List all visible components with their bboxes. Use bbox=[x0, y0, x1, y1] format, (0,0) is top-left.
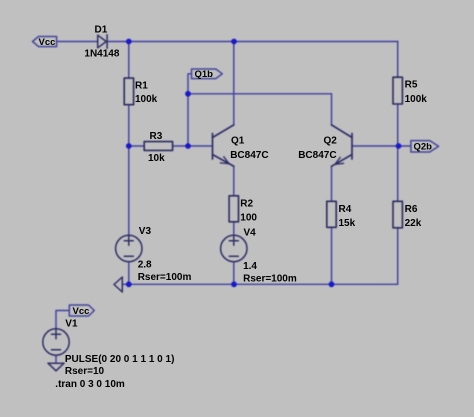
wire V1 flag link bbox=[56, 311, 69, 329]
svg-text:PULSE(0 20 0 1 1 1 0 1): PULSE(0 20 0 1 1 1 0 1) bbox=[65, 354, 175, 365]
resistor R5 bbox=[393, 77, 402, 104]
node dot rail V3 bbox=[126, 281, 132, 287]
svg-text:R2: R2 bbox=[240, 198, 253, 209]
wire R6 bottom drop bbox=[397, 228, 399, 284]
svg-text:Rser=100m: Rser=100m bbox=[138, 272, 192, 283]
ground under V1 bbox=[48, 363, 64, 371]
wire bottom ground rail bbox=[122, 283, 397, 285]
svg-text:Vcc: Vcc bbox=[39, 37, 56, 48]
svg-text:Q2: Q2 bbox=[324, 136, 338, 147]
svg-text:Rser=10: Rser=10 bbox=[65, 366, 105, 377]
ground left (rotated) bbox=[114, 277, 122, 292]
wire cross node to Q1b flag bbox=[188, 74, 192, 94]
wire R1 bottom to node bbox=[128, 105, 130, 146]
svg-text:R5: R5 bbox=[405, 80, 418, 91]
wire cross coupling horizontal bbox=[188, 93, 332, 95]
node dot Q1b cross bbox=[185, 91, 191, 97]
flag Vcc top bbox=[33, 37, 57, 47]
wire R4 bottom to rail bbox=[331, 227, 333, 284]
flag Q2b bbox=[411, 141, 439, 152]
svg-text:V4: V4 bbox=[244, 228, 257, 239]
svg-text:R1: R1 bbox=[135, 81, 148, 92]
wire Q1 emitter down to R2 bbox=[233, 166, 235, 196]
svg-text:D1: D1 bbox=[95, 25, 108, 36]
svg-text:Q2b: Q2b bbox=[414, 142, 433, 153]
wire V1 bottom to ground bbox=[55, 355, 57, 363]
resistor R2 bbox=[229, 196, 238, 222]
wire base node up to cross node bbox=[187, 94, 189, 146]
svg-text:BC847C: BC847C bbox=[230, 150, 268, 161]
wire R2 bottom to V4 bbox=[233, 222, 235, 236]
svg-text:100k: 100k bbox=[405, 94, 428, 105]
wire V4 bottom to rail bbox=[233, 262, 235, 285]
svg-text:15k: 15k bbox=[339, 218, 356, 229]
voltage source V3 bbox=[116, 235, 142, 261]
node dot rail R4 bbox=[329, 281, 335, 287]
svg-text:Q1b: Q1b bbox=[195, 69, 214, 80]
flag Vcc bottom bbox=[69, 305, 94, 316]
diode D1 bbox=[98, 35, 107, 49]
svg-text:22k: 22k bbox=[405, 218, 422, 229]
flag Q1b bbox=[192, 69, 223, 79]
svg-text:R3: R3 bbox=[150, 131, 163, 142]
svg-text:Vcc: Vcc bbox=[73, 306, 90, 317]
svg-text:2.8: 2.8 bbox=[138, 260, 152, 271]
svg-text:Q1: Q1 bbox=[231, 136, 245, 147]
transistor Q1 bbox=[213, 125, 234, 166]
svg-text:100: 100 bbox=[240, 212, 257, 223]
wire Q2 base bbox=[352, 145, 399, 147]
svg-text:10k: 10k bbox=[148, 153, 165, 164]
wire Q1 collector up to rail bbox=[233, 42, 235, 125]
wire Q2 emitter down to R4 bbox=[331, 166, 333, 201]
wire Q1 base bbox=[188, 145, 213, 147]
svg-text:R6: R6 bbox=[405, 204, 418, 215]
svg-text:V1: V1 bbox=[65, 319, 78, 330]
resistor R1 bbox=[124, 78, 133, 105]
resistor R3 bbox=[144, 142, 172, 151]
wire R5 top drop bbox=[397, 42, 399, 78]
svg-text:V3: V3 bbox=[139, 226, 152, 237]
resistor R6 bbox=[393, 201, 402, 228]
wire top rail right (D1 cathode to R5 corner) bbox=[107, 41, 398, 43]
wire down to Q2 collector bbox=[331, 94, 333, 125]
wire R5 bottom to Q2b node bbox=[397, 104, 399, 146]
wire V3 bottom to rail bbox=[128, 262, 130, 285]
svg-text:100k: 100k bbox=[135, 94, 158, 105]
svg-text:Rser=100m: Rser=100m bbox=[243, 274, 297, 285]
svg-text:R4: R4 bbox=[339, 204, 352, 215]
wire Q2b node down to R6 bbox=[397, 146, 399, 201]
transistor Q2 bbox=[332, 125, 353, 166]
node dot Q1 base bbox=[185, 143, 191, 149]
node dot top rail Q1 collector bbox=[231, 39, 237, 45]
node dot top rail R1 bbox=[126, 39, 132, 45]
wire Q2b node to flag bbox=[399, 145, 411, 147]
voltage source V1 bbox=[43, 329, 69, 355]
wire R3 right to base node bbox=[173, 145, 188, 147]
svg-text:.tran 0 3 0 10m: .tran 0 3 0 10m bbox=[55, 379, 125, 390]
voltage source V4 bbox=[221, 235, 247, 261]
resistor R4 bbox=[327, 201, 336, 227]
node dot R1/R3/V3 bbox=[126, 143, 132, 149]
node dot Q2b bbox=[396, 143, 402, 149]
node dot rail V4 bbox=[231, 281, 237, 287]
wire node to R3 left bbox=[129, 145, 144, 147]
wire top rail left (Vcc flag to D1 anode) bbox=[57, 41, 98, 43]
wire R1 top bbox=[128, 42, 130, 79]
svg-text:1N4148: 1N4148 bbox=[84, 49, 119, 60]
svg-text:1.4: 1.4 bbox=[243, 261, 257, 272]
wire node to V3 top bbox=[128, 146, 130, 235]
svg-text:BC847C: BC847C bbox=[298, 150, 336, 161]
